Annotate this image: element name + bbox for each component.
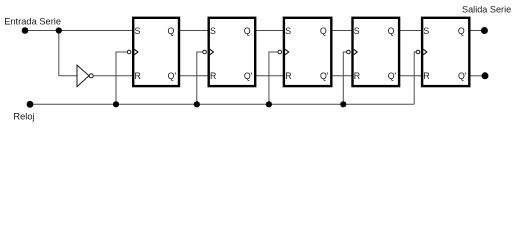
node Reloj terminal — [27, 101, 34, 108]
inverter U6 — [77, 65, 93, 87]
wire inverter output to R of U1 — [93, 75, 132, 77]
svg-text:Q': Q' — [320, 71, 329, 81]
wire serial input to S of U1 — [25, 30, 133, 32]
clock bubble U3 — [278, 50, 282, 54]
junction clock U2 — [194, 101, 200, 107]
node output terminal Q' — [482, 72, 489, 79]
clock triangle U5 — [423, 49, 427, 54]
clock triangle U1 — [134, 49, 138, 54]
wire Q'4 to R5 — [399, 75, 422, 77]
clock bubble U5 — [416, 50, 420, 54]
svg-text:Q: Q — [320, 26, 327, 36]
svg-text:R: R — [423, 71, 429, 81]
clock bubble U2 — [203, 50, 207, 54]
svg-text:S: S — [423, 26, 429, 36]
svg-text:Q': Q' — [388, 71, 397, 81]
flip-flop U5 — [416, 18, 469, 86]
svg-text:Q: Q — [168, 26, 175, 36]
flip-flop U1 — [127, 18, 179, 86]
flip-flop U4 — [347, 18, 400, 86]
svg-text:Entrada Serie: Entrada Serie — [4, 17, 61, 27]
wire Q2 to S3 — [255, 30, 284, 32]
svg-text:Q: Q — [388, 26, 395, 36]
wire clock riser to U2 — [197, 52, 203, 104]
wire clock rail — [30, 103, 414, 105]
junction input branch — [56, 27, 62, 33]
svg-text:Reloj: Reloj — [13, 112, 34, 122]
junction clock U3 — [266, 101, 272, 107]
wire clock riser to U4 — [343, 52, 346, 104]
svg-text:Q: Q — [244, 26, 251, 36]
node Salida Serie terminal Q — [481, 27, 488, 34]
flip-flop U2 — [203, 18, 255, 86]
wire clock riser to U5 — [414, 52, 416, 104]
flip-flop U3 — [278, 18, 331, 86]
node Entrada Serie terminal — [22, 27, 29, 34]
clock triangle U3 — [285, 49, 289, 54]
svg-text:Q': Q' — [244, 71, 253, 81]
wire Q3 to S4 — [331, 30, 352, 32]
wire Q'2 to R3 — [255, 75, 284, 77]
junction clock U1 — [113, 101, 119, 107]
svg-text:S: S — [210, 26, 216, 36]
wire clock riser to U1 — [116, 52, 127, 104]
wire Q5 to serial output terminal — [469, 30, 481, 32]
svg-text:R: R — [135, 71, 141, 81]
svg-text:Q': Q' — [168, 71, 177, 81]
svg-text:R: R — [354, 71, 360, 81]
clock bubble U4 — [347, 50, 351, 54]
wire branch down from input node — [58, 31, 60, 76]
clock triangle U2 — [210, 49, 214, 54]
wire Q'5 to output terminal — [469, 75, 481, 77]
svg-text:S: S — [135, 26, 141, 36]
svg-text:Q: Q — [458, 26, 465, 36]
svg-text:S: S — [354, 26, 360, 36]
svg-text:R: R — [210, 71, 216, 81]
junction clock U4 — [340, 101, 346, 107]
wire Q'3 to R4 — [331, 75, 352, 77]
wire Q1 to S2 — [179, 30, 209, 32]
wire branch to inverter input — [59, 75, 77, 77]
wire Q4 to S5 — [399, 30, 422, 32]
svg-text:S: S — [285, 26, 291, 36]
wire Q'1 to R2 — [179, 75, 209, 77]
svg-text:Salida Serie: Salida Serie — [462, 5, 511, 15]
clock bubble U1 — [127, 50, 131, 54]
svg-text:Q': Q' — [458, 71, 467, 81]
wire clock riser to U3 — [269, 52, 278, 104]
svg-text:R: R — [285, 71, 291, 81]
clock triangle U4 — [354, 49, 358, 54]
